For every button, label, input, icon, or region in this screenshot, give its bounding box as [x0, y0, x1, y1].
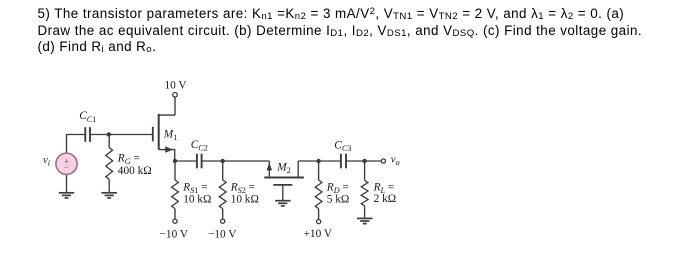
resistor RD 5k: [315, 180, 322, 209]
ground under RG: [102, 192, 117, 194]
node RL / vo: [362, 159, 366, 163]
wire RL leads: [364, 161, 366, 218]
ground under vi: [59, 192, 74, 194]
ground under RL: [357, 217, 372, 219]
wire 10V supply to M1 drain: [159, 97, 175, 115]
svg-text:−10 V: −10 V: [208, 228, 237, 240]
svg-text:vi: vi: [43, 154, 51, 168]
node gate junction (CC1/RG): [107, 132, 111, 136]
svg-text:vo: vo: [391, 154, 400, 168]
transistor M2 (NMOS, horizontal, common-gate): [268, 161, 270, 176]
svg-text:M1: M1: [163, 128, 178, 142]
svg-text:CC1: CC1: [79, 110, 96, 124]
svg-text:RG =: RG =: [117, 152, 140, 166]
svg-text:+10 V: +10 V: [304, 228, 333, 240]
transistor M1 (NMOS, vertical): [152, 127, 154, 142]
source vi (ac input): [56, 153, 77, 174]
resistor RS2 10k: [219, 180, 226, 209]
node RS2: [221, 159, 225, 163]
svg-text:10 V: 10 V: [164, 79, 187, 91]
svg-text:10 kΩ: 10 kΩ: [231, 193, 259, 205]
wire M2 drain to CC3: [298, 160, 340, 162]
wire M1 source to main node: [159, 150, 175, 161]
wire CC2 to M2 source: [202, 160, 269, 162]
wire main node to CC2: [175, 160, 197, 162]
resistor RS1 10k: [172, 180, 179, 209]
resistor RL 2k: [361, 180, 368, 205]
capacitor CC3: [340, 154, 342, 169]
svg-text:5 kΩ: 5 kΩ: [327, 193, 350, 205]
wire RG leads: [108, 135, 110, 194]
terminal vo output: [381, 159, 385, 163]
wire RS2 leads: [222, 161, 224, 219]
wire CC3 to vo terminal: [347, 160, 381, 162]
capacitor CC1: [84, 127, 86, 142]
wire RD leads: [318, 161, 320, 219]
terminal +10V under RD: [317, 220, 321, 224]
svg-text:10 kΩ: 10 kΩ: [183, 193, 211, 205]
terminal -10V under RS1: [173, 219, 177, 223]
svg-text:−: −: [64, 162, 69, 172]
node M1 source / RS1: [173, 159, 177, 163]
wire vi top to CC1: [67, 135, 85, 154]
wire CC1 to gate of M1: [91, 134, 152, 136]
svg-text:2 kΩ: 2 kΩ: [374, 193, 397, 205]
node RD / CC3: [316, 159, 320, 163]
svg-text:−10 V: −10 V: [160, 228, 189, 240]
resistor RG 400k: [106, 148, 113, 180]
terminal -10V under RS2: [221, 219, 225, 223]
capacitor CC2: [196, 154, 198, 169]
terminal +10V top: [173, 93, 178, 98]
svg-text:CC2: CC2: [191, 139, 208, 153]
wire RS1 leads: [174, 161, 176, 219]
svg-text:CC3: CC3: [334, 140, 351, 154]
svg-text:M2: M2: [276, 162, 291, 176]
wire vi bottom to ground: [66, 174, 68, 193]
ground under M2 gate: [275, 200, 290, 202]
svg-text:400 kΩ: 400 kΩ: [118, 165, 152, 177]
